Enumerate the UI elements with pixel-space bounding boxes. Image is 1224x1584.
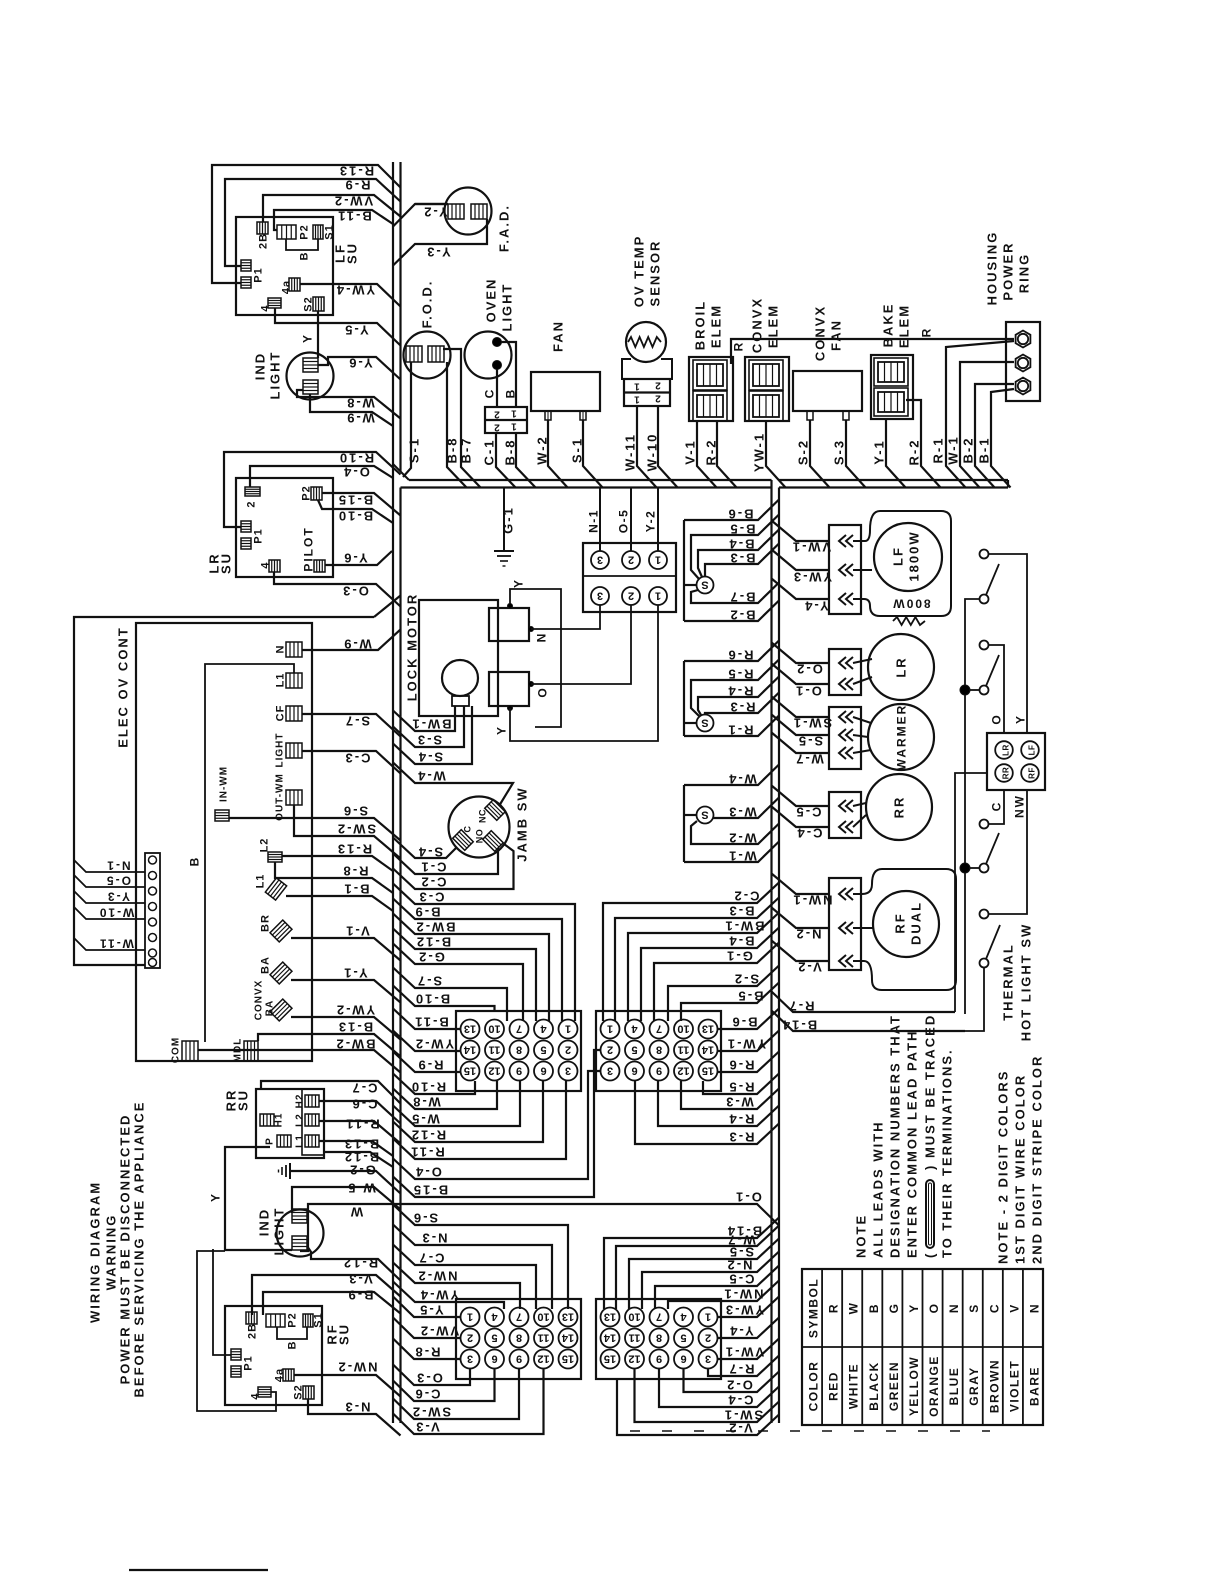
pin BA slanted bbox=[270, 962, 292, 984]
pin L2 bbox=[268, 852, 282, 862]
wire C-3 loop bbox=[393, 884, 575, 1022]
wire B-10 bbox=[318, 500, 393, 523]
pin P2 of LR SU bbox=[311, 487, 322, 500]
pin CF bbox=[286, 706, 302, 721]
wire W-5 loop under bbox=[393, 1081, 520, 1126]
wire BW-1 bbox=[393, 706, 455, 731]
svg-text:ENTER COMMON LEAD PATH: ENTER COMMON LEAD PATH bbox=[905, 1030, 920, 1258]
wire NW-1 lead bbox=[772, 874, 830, 895]
terminal block 2x2 of oven light bbox=[485, 407, 527, 433]
svg-text:R-13: R-13 bbox=[336, 842, 372, 857]
svg-text:R-12: R-12 bbox=[342, 1256, 378, 1271]
svg-text:ELEC OV CONT: ELEC OV CONT bbox=[116, 626, 131, 748]
pin 12 of P3 lower-left bbox=[534, 1350, 553, 1369]
svg-text:C-1: C-1 bbox=[482, 439, 497, 466]
svg-text:R-3: R-3 bbox=[728, 1130, 755, 1145]
wire BW-2 bbox=[198, 1050, 401, 1073]
wire YW-4 bbox=[300, 284, 401, 307]
connector in F.A.D. left bbox=[448, 204, 464, 219]
svg-text:W: W bbox=[847, 1302, 861, 1315]
svg-text:6: 6 bbox=[540, 1065, 546, 1077]
connector in IND LIGHT lower bbox=[303, 380, 318, 394]
wire S-2 loop right bbox=[668, 966, 779, 1022]
wire B-8 lead of oven light bbox=[516, 433, 536, 488]
element RF DUAL circle bbox=[873, 891, 939, 957]
element LR circle bbox=[868, 634, 934, 700]
pin prong left of fan bbox=[545, 411, 551, 420]
motor LOCK MOTOR box bbox=[419, 600, 498, 716]
svg-text:7: 7 bbox=[516, 1023, 522, 1035]
wire R feed bbox=[731, 339, 1014, 364]
svg-text:11: 11 bbox=[538, 1332, 550, 1344]
pin S1 of LF SU bbox=[313, 225, 323, 239]
svg-text:TO THEIR TERMINATIONS.: TO THEIR TERMINATIONS. bbox=[940, 1048, 955, 1258]
wire O-5 top lead bbox=[630, 488, 632, 552]
svg-text:Y: Y bbox=[1014, 714, 1028, 724]
svg-text:B-13: B-13 bbox=[337, 1020, 373, 1035]
svg-text:7: 7 bbox=[656, 1023, 662, 1035]
svg-text:S-4: S-4 bbox=[417, 845, 443, 860]
pin pilot of LR SU bbox=[314, 560, 325, 572]
terminal circle 2 of strip bbox=[149, 872, 157, 880]
pin 6 of P1 upper-left bbox=[534, 1062, 553, 1081]
dashed fold line bbox=[630, 1430, 990, 1432]
svg-text:R-4: R-4 bbox=[728, 1112, 755, 1127]
wire C-6 bbox=[319, 1101, 401, 1124]
svg-text:YW-4: YW-4 bbox=[419, 1288, 459, 1303]
wire NW from box bbox=[989, 790, 1027, 914]
svg-text:S: S bbox=[701, 717, 708, 729]
pin 1 of P1 upper-left bbox=[559, 1020, 578, 1039]
svg-text:13: 13 bbox=[562, 1311, 574, 1323]
pin LIGHT bbox=[286, 743, 302, 758]
svg-text:VIOLET: VIOLET bbox=[1007, 1360, 1021, 1412]
svg-text:W-2: W-2 bbox=[535, 435, 550, 465]
wire S-5 lead bbox=[772, 715, 830, 736]
pin 9 of P3 lower-left bbox=[510, 1350, 529, 1369]
svg-text:O: O bbox=[990, 713, 1004, 724]
svg-text:VW-2: VW-2 bbox=[419, 1324, 459, 1339]
svg-text:R-2: R-2 bbox=[704, 439, 719, 466]
svg-text:2: 2 bbox=[494, 422, 500, 433]
svg-text:BW-1: BW-1 bbox=[411, 717, 452, 732]
svg-text:NW-1: NW-1 bbox=[723, 1287, 764, 1302]
wire - top common lead bus (double line) bbox=[409, 479, 772, 481]
wire W-10 to strip bbox=[74, 907, 145, 919]
pin 11 of P4 lower-right bbox=[625, 1329, 644, 1348]
pin 8 of P3 lower-left bbox=[510, 1329, 529, 1348]
splice S1 bundle B wires bbox=[697, 577, 714, 594]
connector block P1 upper-left bbox=[456, 1011, 581, 1091]
svg-text:S-3: S-3 bbox=[832, 439, 847, 465]
pin 7 of P3 lower-left bbox=[510, 1308, 529, 1327]
svg-text:NO: NO bbox=[475, 829, 485, 844]
wire R-7 to rail bbox=[772, 992, 956, 1013]
svg-text:8: 8 bbox=[516, 1044, 522, 1056]
wire sw1 pivot to rail bbox=[965, 599, 980, 1014]
svg-text:BLACK: BLACK bbox=[867, 1361, 881, 1411]
wire W-2 splice bbox=[691, 821, 779, 844]
svg-text:SU: SU bbox=[236, 1089, 251, 1111]
svg-text:N-3: N-3 bbox=[344, 1400, 371, 1415]
connector in broil elem upper bbox=[697, 364, 723, 386]
wire Y lower to terminal 1 bbox=[510, 605, 658, 741]
wire O-2 lead bbox=[772, 643, 830, 664]
svg-text:S: S bbox=[701, 579, 708, 591]
svg-text:LF: LF bbox=[1028, 745, 1037, 756]
svg-text:FAN: FAN bbox=[829, 319, 844, 351]
svg-text:B-12: B-12 bbox=[343, 1150, 379, 1165]
svg-text:N-1: N-1 bbox=[587, 509, 601, 533]
svg-text:SW-2: SW-2 bbox=[336, 822, 376, 837]
svg-text:SW-1: SW-1 bbox=[723, 1408, 763, 1423]
svg-text:11: 11 bbox=[489, 1044, 501, 1056]
lamp IND LIGHT bbox=[287, 353, 334, 400]
svg-text:4: 4 bbox=[680, 1311, 687, 1323]
svg-text:RF: RF bbox=[893, 912, 908, 933]
svg-text:B-11: B-11 bbox=[336, 209, 371, 224]
svg-text:W-10: W-10 bbox=[645, 433, 660, 472]
wire B-5 loop right bbox=[681, 983, 779, 1022]
svg-text:W-4: W-4 bbox=[416, 769, 446, 784]
terminal dot lower of oven light bbox=[493, 361, 502, 370]
terminal circle 6 of strip bbox=[149, 934, 157, 942]
lamp LR indicator bbox=[995, 741, 1013, 759]
svg-text:R-11: R-11 bbox=[409, 1145, 444, 1160]
svg-text:YW-2: YW-2 bbox=[414, 1037, 454, 1052]
pin MDL bbox=[244, 1041, 258, 1061]
svg-text:W-3: W-3 bbox=[724, 1095, 754, 1110]
svg-text:S: S bbox=[967, 1303, 981, 1313]
indicator box hot lights bbox=[987, 733, 1045, 790]
wire N-1 to strip bbox=[74, 860, 145, 872]
svg-text:C: C bbox=[990, 801, 1004, 812]
heater BAKE ELEM bbox=[871, 355, 913, 419]
svg-text:R-5: R-5 bbox=[728, 1080, 755, 1095]
svg-text:8: 8 bbox=[656, 1332, 662, 1344]
svg-text:B-3: B-3 bbox=[729, 551, 756, 566]
wire R-10 bbox=[224, 452, 401, 527]
pin P of RR SU bbox=[277, 1135, 291, 1147]
svg-text:O-2: O-2 bbox=[795, 662, 823, 677]
svg-text:SW-2: SW-2 bbox=[411, 1405, 451, 1420]
svg-text:CONVX: CONVX bbox=[254, 980, 265, 1021]
svg-text:800W: 800W bbox=[891, 597, 930, 611]
wire R-7 under right bbox=[708, 1356, 779, 1377]
svg-text:B-10: B-10 bbox=[337, 509, 373, 524]
wire O-4 long bbox=[393, 1071, 601, 1179]
svg-text:RR: RR bbox=[892, 796, 907, 819]
svg-text:NW-2: NW-2 bbox=[417, 1269, 458, 1284]
svg-text:O: O bbox=[536, 686, 550, 697]
splice S3 bundle W wires bbox=[697, 807, 714, 824]
lamp RF indicator bbox=[1021, 764, 1039, 782]
svg-text:B-8: B-8 bbox=[503, 439, 518, 466]
svg-text:R-5: R-5 bbox=[727, 667, 754, 682]
pin 9 of P4 lower-right bbox=[650, 1350, 669, 1369]
svg-text:13: 13 bbox=[604, 1311, 616, 1323]
pin P1 of RF SU (pair) bbox=[231, 1349, 241, 1360]
wire B-14 to switch bbox=[772, 1011, 966, 1032]
svg-text:RING: RING bbox=[1017, 253, 1032, 294]
wire Y from sw1 bbox=[988, 554, 1027, 733]
svg-text:B-14: B-14 bbox=[781, 1018, 817, 1033]
wire S-6 of in-wm bbox=[229, 818, 401, 841]
svg-text:G-1: G-1 bbox=[725, 949, 753, 964]
wire Y-4 row2 right bbox=[718, 1318, 780, 1339]
svg-text:ELEM: ELEM bbox=[766, 304, 781, 348]
svg-text:B-5: B-5 bbox=[737, 989, 764, 1004]
svg-text:BA: BA bbox=[260, 956, 272, 974]
wire R-9 bbox=[225, 179, 401, 266]
svg-text:B-15: B-15 bbox=[412, 1183, 448, 1198]
connector in F.O.D. right bbox=[428, 346, 444, 362]
wire W-8 bbox=[297, 390, 401, 419]
pin prong right of fan bbox=[580, 411, 586, 420]
svg-text:9: 9 bbox=[656, 1065, 662, 1077]
terminal ring bottom bbox=[1016, 378, 1031, 395]
pin 10 of P2 upper-right bbox=[674, 1020, 693, 1039]
svg-text:BW-1: BW-1 bbox=[724, 919, 765, 934]
svg-text:W-5: W-5 bbox=[410, 1112, 440, 1127]
pin 4a of RF SU bbox=[283, 1369, 294, 1381]
svg-text:L1: L1 bbox=[295, 1134, 306, 1148]
wire YW-3 row1 right bbox=[718, 1297, 780, 1318]
svg-text:R-9: R-9 bbox=[417, 1058, 444, 1073]
wire C from box bbox=[989, 790, 1004, 824]
svg-text:Y: Y bbox=[907, 1303, 921, 1313]
svg-text:YW-4: YW-4 bbox=[335, 283, 375, 298]
wire pin4 loop bbox=[197, 1251, 276, 1411]
svg-text:B-3: B-3 bbox=[728, 904, 755, 919]
pin 6 of P3 lower-left bbox=[485, 1350, 504, 1369]
pin P2 of RF SU bbox=[266, 1314, 285, 1327]
svg-text:BLUE: BLUE bbox=[947, 1367, 961, 1406]
wire B-2 bbox=[975, 384, 1014, 488]
element LF 1800W circle bbox=[874, 523, 942, 591]
svg-text:VW-1: VW-1 bbox=[791, 540, 831, 555]
svg-text:2: 2 bbox=[628, 554, 634, 566]
svg-text:1: 1 bbox=[655, 554, 661, 566]
svg-text:(: ( bbox=[923, 1252, 938, 1258]
pin prong left of convx fan bbox=[807, 411, 813, 420]
wire B-13 bbox=[258, 1034, 401, 1057]
svg-text:P2: P2 bbox=[299, 224, 311, 239]
svg-text:B-5: B-5 bbox=[729, 522, 756, 537]
junction dot sw3 bbox=[960, 863, 970, 873]
pin H2 bbox=[305, 1095, 319, 1107]
wire B-11 row1 bbox=[393, 1009, 461, 1030]
pin 13 of P2 upper-right bbox=[699, 1020, 718, 1039]
wire B-6 row1 right bbox=[718, 1009, 780, 1030]
wire R-1 bbox=[684, 716, 779, 737]
wire N-2 lead bbox=[772, 908, 830, 929]
wire V-1 of BR bbox=[291, 938, 401, 961]
svg-text:B: B bbox=[299, 252, 311, 261]
svg-text:COLOR: COLOR bbox=[807, 1361, 821, 1412]
svg-text:LIGHT: LIGHT bbox=[272, 1207, 287, 1256]
wire C-3 bbox=[302, 751, 401, 774]
svg-text:C-2: C-2 bbox=[733, 889, 760, 904]
wire SW-2 of out-wm bbox=[294, 805, 401, 859]
svg-text:BW-2: BW-2 bbox=[335, 1037, 376, 1052]
wire S-3 lead bbox=[846, 420, 866, 488]
svg-text:Y-6: Y-6 bbox=[342, 551, 368, 566]
svg-text:N: N bbox=[535, 632, 549, 643]
pin 10 of P3 lower-left bbox=[534, 1308, 553, 1327]
inner box of RR SU bbox=[302, 1089, 324, 1155]
wire O-3 loop under bbox=[393, 1365, 470, 1386]
svg-text:R-7: R-7 bbox=[788, 999, 815, 1014]
svg-text:5: 5 bbox=[631, 1044, 637, 1056]
svg-text:B-10: B-10 bbox=[414, 992, 450, 1007]
svg-text:2: 2 bbox=[565, 1044, 571, 1056]
wire S-4 to C bbox=[393, 838, 457, 859]
switch RR SU box bbox=[256, 1089, 324, 1158]
svg-text:12: 12 bbox=[537, 1353, 549, 1365]
motor pedestal bbox=[452, 696, 469, 706]
element RR circle bbox=[866, 774, 932, 840]
decorative link underline bbox=[129, 1569, 268, 1571]
splice S2 bundle R wires bbox=[697, 715, 714, 732]
svg-text:IN-WM: IN-WM bbox=[219, 766, 230, 802]
svg-text:SU: SU bbox=[219, 552, 234, 574]
pin 11 of P1 upper-left bbox=[485, 1041, 504, 1060]
terminal circle 2 bottom row bbox=[622, 587, 640, 605]
relay contact lower bbox=[489, 672, 529, 706]
svg-text:DESIGNATION NUMBERS THAT: DESIGNATION NUMBERS THAT bbox=[888, 1014, 903, 1258]
svg-text:FAN: FAN bbox=[551, 320, 566, 352]
svg-text:C: C bbox=[987, 1303, 1001, 1313]
controller ELEC OV CONT outer wire bbox=[74, 617, 374, 965]
wire B-1 bbox=[286, 896, 393, 911]
svg-text:HOT LIGHT SW: HOT LIGHT SW bbox=[1019, 923, 1034, 1042]
wire Y from S2 to ind light bbox=[317, 311, 319, 358]
terminal block 2x2 of sensor bbox=[624, 379, 670, 406]
svg-text:V-2: V-2 bbox=[796, 960, 822, 975]
pin 8 of P1 upper-left bbox=[510, 1041, 529, 1060]
pin 11 of P3 lower-left bbox=[534, 1329, 553, 1348]
svg-text:10: 10 bbox=[488, 1023, 500, 1035]
svg-text:GRAY: GRAY bbox=[967, 1366, 981, 1406]
wire W to right bus bbox=[300, 1204, 779, 1251]
wire B-3 loop right bbox=[615, 898, 779, 1022]
svg-text:NC: NC bbox=[478, 809, 488, 823]
wire R-12 loop under bbox=[393, 1081, 543, 1142]
wire VW-2 row2 bbox=[393, 1318, 461, 1339]
svg-text:R-8: R-8 bbox=[414, 1345, 441, 1360]
svg-text:11: 11 bbox=[629, 1332, 641, 1344]
pin 8 of P4 lower-right bbox=[650, 1329, 669, 1348]
svg-text:15: 15 bbox=[604, 1353, 616, 1365]
pin IN-WM bbox=[215, 810, 229, 821]
svg-text:O-5: O-5 bbox=[105, 874, 131, 888]
svg-text:SENSOR: SENSOR bbox=[648, 240, 663, 307]
svg-text:YW-3: YW-3 bbox=[724, 1303, 764, 1318]
pin 2 of P1 upper-left bbox=[559, 1041, 578, 1060]
svg-text:R-6: R-6 bbox=[727, 648, 754, 663]
wire Y-2 bbox=[393, 204, 448, 227]
svg-text:VW-2: VW-2 bbox=[333, 194, 373, 209]
svg-text:W-1: W-1 bbox=[727, 849, 757, 864]
wire W-4 splice bbox=[684, 765, 779, 786]
wire - right common lead bus (double line) bbox=[770, 480, 772, 1423]
svg-text:NOTE: NOTE bbox=[854, 1214, 869, 1258]
svg-text:2: 2 bbox=[655, 393, 661, 404]
wire W-11 bbox=[637, 406, 657, 488]
connector HOUSING POWER RING bbox=[1006, 322, 1040, 401]
wire R-2 of bake bbox=[906, 400, 941, 488]
element LF 1800W arrow box bbox=[829, 525, 861, 614]
svg-text:O-5: O-5 bbox=[617, 509, 631, 534]
svg-text:W-7: W-7 bbox=[794, 752, 824, 767]
wire bracket outer R bbox=[683, 661, 685, 736]
pin prong right of convx fan bbox=[843, 411, 849, 420]
svg-text:RED: RED bbox=[827, 1371, 841, 1401]
pin 2 of P4 lower-right bbox=[699, 1329, 718, 1348]
svg-text:1800W: 1800W bbox=[907, 530, 922, 581]
wire B of oven light bbox=[501, 342, 516, 407]
svg-text:L2: L2 bbox=[295, 1113, 306, 1127]
svg-text:R-3: R-3 bbox=[729, 700, 756, 715]
svg-text:13: 13 bbox=[702, 1023, 714, 1035]
svg-text:R-4: R-4 bbox=[727, 684, 754, 699]
terminal circle 1 top row bbox=[649, 551, 667, 569]
svg-text:C: C bbox=[463, 826, 473, 833]
svg-text:Y: Y bbox=[301, 333, 315, 343]
pin 10 of P1 upper-left bbox=[485, 1020, 504, 1039]
pin 4 of P1 upper-left bbox=[534, 1020, 553, 1039]
svg-text:G-1: G-1 bbox=[501, 506, 516, 534]
arrow terminal VW-1 bbox=[839, 535, 846, 547]
connector in convx elem upper bbox=[753, 364, 779, 386]
svg-text:S-6: S-6 bbox=[412, 1211, 438, 1226]
pin NC of jamb sw bbox=[485, 800, 506, 821]
wire Y upper loop bbox=[510, 589, 561, 727]
svg-text:C-3: C-3 bbox=[418, 890, 445, 905]
svg-text:S2: S2 bbox=[293, 1384, 305, 1399]
svg-text:G-2: G-2 bbox=[417, 950, 445, 965]
svg-text:R-8: R-8 bbox=[342, 864, 369, 879]
svg-text:Y-4: Y-4 bbox=[728, 1324, 754, 1339]
svg-text:LOCK MOTOR: LOCK MOTOR bbox=[405, 593, 420, 702]
svg-text:W-8: W-8 bbox=[345, 396, 375, 411]
svg-text:WARNING: WARNING bbox=[104, 1214, 119, 1291]
svg-text:BARE: BARE bbox=[1027, 1366, 1041, 1406]
svg-text:P2: P2 bbox=[287, 1312, 299, 1327]
svg-text:5: 5 bbox=[680, 1332, 686, 1344]
pin 1 of P3 lower-left bbox=[461, 1308, 480, 1327]
svg-text:LIGHT: LIGHT bbox=[275, 733, 286, 768]
wire V-2 under right bbox=[617, 1379, 779, 1435]
svg-text:YW-1: YW-1 bbox=[752, 432, 767, 472]
wire B-7 bbox=[443, 349, 481, 488]
svg-text:12: 12 bbox=[677, 1065, 689, 1077]
switch thermal sw2 bbox=[980, 641, 989, 650]
wire W-2 bbox=[548, 420, 568, 488]
pin 4 of RF SU bbox=[258, 1387, 271, 1397]
svg-text:V-2: V-2 bbox=[727, 1421, 753, 1436]
wire BW-2 loop bbox=[393, 914, 549, 1022]
pin N bbox=[286, 642, 302, 657]
svg-text:POWER: POWER bbox=[1001, 241, 1016, 300]
svg-text:Y: Y bbox=[495, 725, 509, 735]
svg-text:B-1: B-1 bbox=[977, 437, 992, 464]
terminal dot upper of oven light bbox=[493, 338, 502, 347]
wire O link bbox=[531, 605, 631, 684]
wire mid lead into element bbox=[853, 569, 872, 571]
wire S-3 bbox=[393, 706, 464, 747]
